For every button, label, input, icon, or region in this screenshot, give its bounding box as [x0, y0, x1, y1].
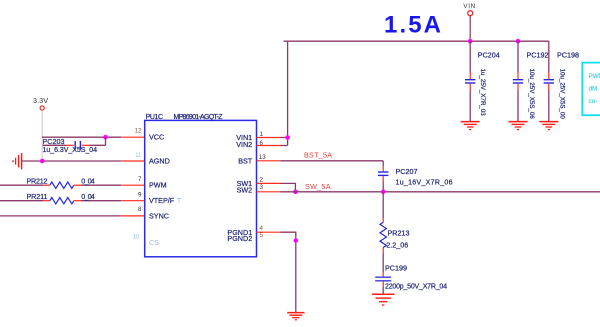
svg-text:0_04: 0_04 — [81, 192, 95, 201]
svg-text:dM: dM — [589, 86, 598, 93]
ground (AGND, left-facing) — [13, 153, 22, 169]
pin stub SYNC pin 8 — [121, 215, 145, 217]
svg-text:PC192: PC192 — [527, 50, 549, 59]
svg-text:PC203: PC203 — [43, 137, 65, 146]
svg-text:8: 8 — [138, 206, 142, 213]
wire BST net — [280, 160, 383, 162]
wire SW1 corner — [281, 183, 296, 191]
ground (PC199) — [372, 294, 394, 305]
wire top VIN horizontal — [284, 40, 549, 42]
wire VCC horizontal — [42, 136, 121, 138]
capacitor PC207 — [378, 161, 453, 192]
wire VTEP from edge — [0, 200, 43, 202]
svg-text:SYNC: SYNC — [149, 211, 169, 220]
op-amp U1 : IC PU1C MP86901-AGQT-Z body — [145, 114, 257, 257]
svg-text:3.3V: 3.3V — [33, 96, 48, 105]
svg-text:PC207: PC207 — [396, 167, 418, 176]
node junction VIN/PC204 — [468, 39, 473, 44]
resistor PR212 — [27, 176, 122, 188]
svg-text:SW_5A: SW_5A — [305, 182, 331, 191]
svg-text:VIN2: VIN2 — [236, 140, 252, 149]
wire SYNC from edge — [0, 215, 121, 217]
svg-text:PWM: PWM — [589, 73, 600, 80]
svg-text:11: 11 — [135, 152, 142, 159]
power symbol VIN — [463, 3, 475, 41]
ground (PGND) — [287, 313, 304, 320]
svg-text:4: 4 — [260, 225, 264, 232]
svg-text:VCC: VCC — [149, 133, 164, 142]
pin stub PWM pin 7 — [121, 184, 145, 186]
resistor PR213 — [380, 192, 409, 272]
svg-text:7: 7 — [138, 176, 142, 183]
svg-text:PWM: PWM — [149, 181, 167, 190]
svg-text:VTEP/F: VTEP/F — [149, 196, 175, 205]
node junction PGND — [294, 238, 299, 243]
svg-text:2: 2 — [260, 177, 264, 184]
pin stub SW2 pin 3 — [257, 191, 281, 193]
svg-text:PC204: PC204 — [478, 50, 500, 59]
svg-text:1u_16V_X7R_06: 1u_16V_X7R_06 — [396, 179, 453, 186]
svg-text:PC199: PC199 — [385, 264, 407, 273]
pin stub VCC pin 12 — [121, 136, 145, 138]
wire VIN1 to junction — [281, 137, 288, 139]
pin stub SW1 pin 2 — [257, 182, 281, 184]
pin stub BST pin 13 — [257, 160, 281, 162]
svg-text:9: 9 — [138, 192, 142, 199]
node junction SW/PC207/PR213 — [381, 190, 386, 195]
node junction PC192 — [516, 39, 521, 44]
svg-text:PGND2: PGND2 — [227, 234, 252, 243]
ground (PC204) — [461, 122, 480, 130]
svg-text:MP86901-AGQT-Z: MP86901-AGQT-Z — [174, 114, 224, 121]
svg-text:SW2: SW2 — [237, 186, 253, 195]
svg-text:3: 3 — [260, 184, 264, 191]
svg-text:T: T — [177, 196, 182, 205]
node junction SW1/SW2 — [293, 190, 298, 195]
svg-text:PR213: PR213 — [388, 228, 410, 237]
svg-text:PC198: PC198 — [557, 50, 579, 59]
svg-text:PR212: PR212 — [27, 176, 48, 185]
svg-text:CS: CS — [149, 238, 159, 247]
svg-text:co-: co- — [589, 98, 598, 105]
resistor PR211 — [27, 192, 122, 204]
ground (PC192) — [509, 122, 528, 130]
wire PWM from edge — [0, 184, 43, 186]
node junction VCC/PC203 — [103, 135, 108, 140]
svg-text:10: 10 — [133, 234, 140, 241]
svg-text:AGND: AGND — [149, 157, 170, 166]
wire SW net to right edge — [281, 191, 600, 193]
svg-text:PU1C: PU1C — [146, 114, 164, 121]
svg-text:10u_25V_X5S_00: 10u_25V_X5S_00 — [559, 69, 566, 120]
node junction VIN1 — [285, 135, 290, 140]
capacitor PC192 — [513, 41, 549, 121]
svg-text:BST: BST — [238, 157, 253, 166]
pin stub VIN1 pin 1 — [257, 137, 281, 139]
svg-text:1u_25V_X7R_03: 1u_25V_X7R_03 — [479, 69, 486, 117]
svg-text:13: 13 — [259, 154, 266, 161]
capacitor PC198 — [544, 41, 579, 121]
svg-text:0_04: 0_04 — [81, 176, 95, 185]
wire PGND corner down to ground — [281, 232, 296, 312]
faint unconnected drop wire — [41, 110, 43, 161]
svg-text:12: 12 — [135, 128, 142, 135]
pin stub VTEP pin 9 — [121, 200, 145, 202]
ground (PC198) — [539, 122, 558, 130]
svg-text:VIN: VIN — [463, 3, 475, 10]
svg-text:10u_25V_X5S_06: 10u_25V_X5S_06 — [528, 69, 535, 120]
svg-text:1u_6.3V_X5S_04: 1u_6.3V_X5S_04 — [43, 147, 98, 154]
wire AGND — [22, 160, 122, 162]
wire VIN2 to vertical — [281, 145, 288, 147]
capacitor PC204 — [465, 41, 500, 121]
svg-text:PR211: PR211 — [27, 192, 48, 201]
svg-text:5: 5 — [260, 232, 264, 239]
pin stub VIN2 pin 6 — [257, 145, 281, 147]
power symbol 3.3V — [33, 96, 48, 161]
pin stub PGND1 pin 4 — [257, 231, 281, 233]
capacitor PC203 — [42, 137, 105, 154]
svg-text:BST_5A: BST_5A — [304, 151, 332, 160]
svg-text:2200p_50V_X7R_04: 2200p_50V_X7R_04 — [385, 284, 447, 291]
wire vertical to VIN1/VIN2 pins — [287, 41, 289, 145]
note box (cyan, clipped at right edge) — [582, 63, 600, 116]
svg-text:1.5A: 1.5A — [384, 12, 441, 39]
capacitor PC199 — [375, 264, 447, 295]
node junction 3.3V drop on AGND — [40, 159, 45, 164]
pin stub AGND pin 11 — [121, 160, 145, 162]
svg-text:2.2_06: 2.2_06 — [386, 241, 408, 250]
